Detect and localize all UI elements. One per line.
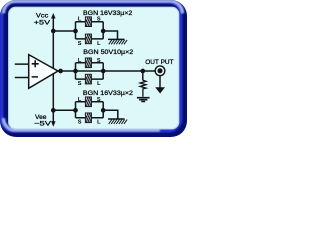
svg-text:−5V: −5V xyxy=(34,120,52,127)
svg-text:L: L xyxy=(78,17,82,23)
svg-text:L: L xyxy=(78,97,82,103)
svg-text:S: S xyxy=(97,17,101,23)
svg-text:L: L xyxy=(97,120,101,126)
svg-text:L: L xyxy=(78,58,82,64)
svg-text:S: S xyxy=(97,58,101,64)
svg-text:L: L xyxy=(97,81,101,87)
svg-text:S: S xyxy=(97,97,101,103)
svg-text:BGN 16V33µ×2: BGN 16V33µ×2 xyxy=(83,10,133,17)
svg-text:S: S xyxy=(78,120,82,126)
svg-text:L: L xyxy=(97,41,101,47)
svg-text:+5V: +5V xyxy=(34,20,51,27)
svg-text:BGN 50V10µ×2: BGN 50V10µ×2 xyxy=(83,49,133,56)
svg-text:S: S xyxy=(78,41,82,47)
svg-text:OUT PUT: OUT PUT xyxy=(145,59,173,66)
svg-text:BGN 16V33µ×2: BGN 16V33µ×2 xyxy=(83,90,133,97)
svg-text:S: S xyxy=(78,81,82,87)
